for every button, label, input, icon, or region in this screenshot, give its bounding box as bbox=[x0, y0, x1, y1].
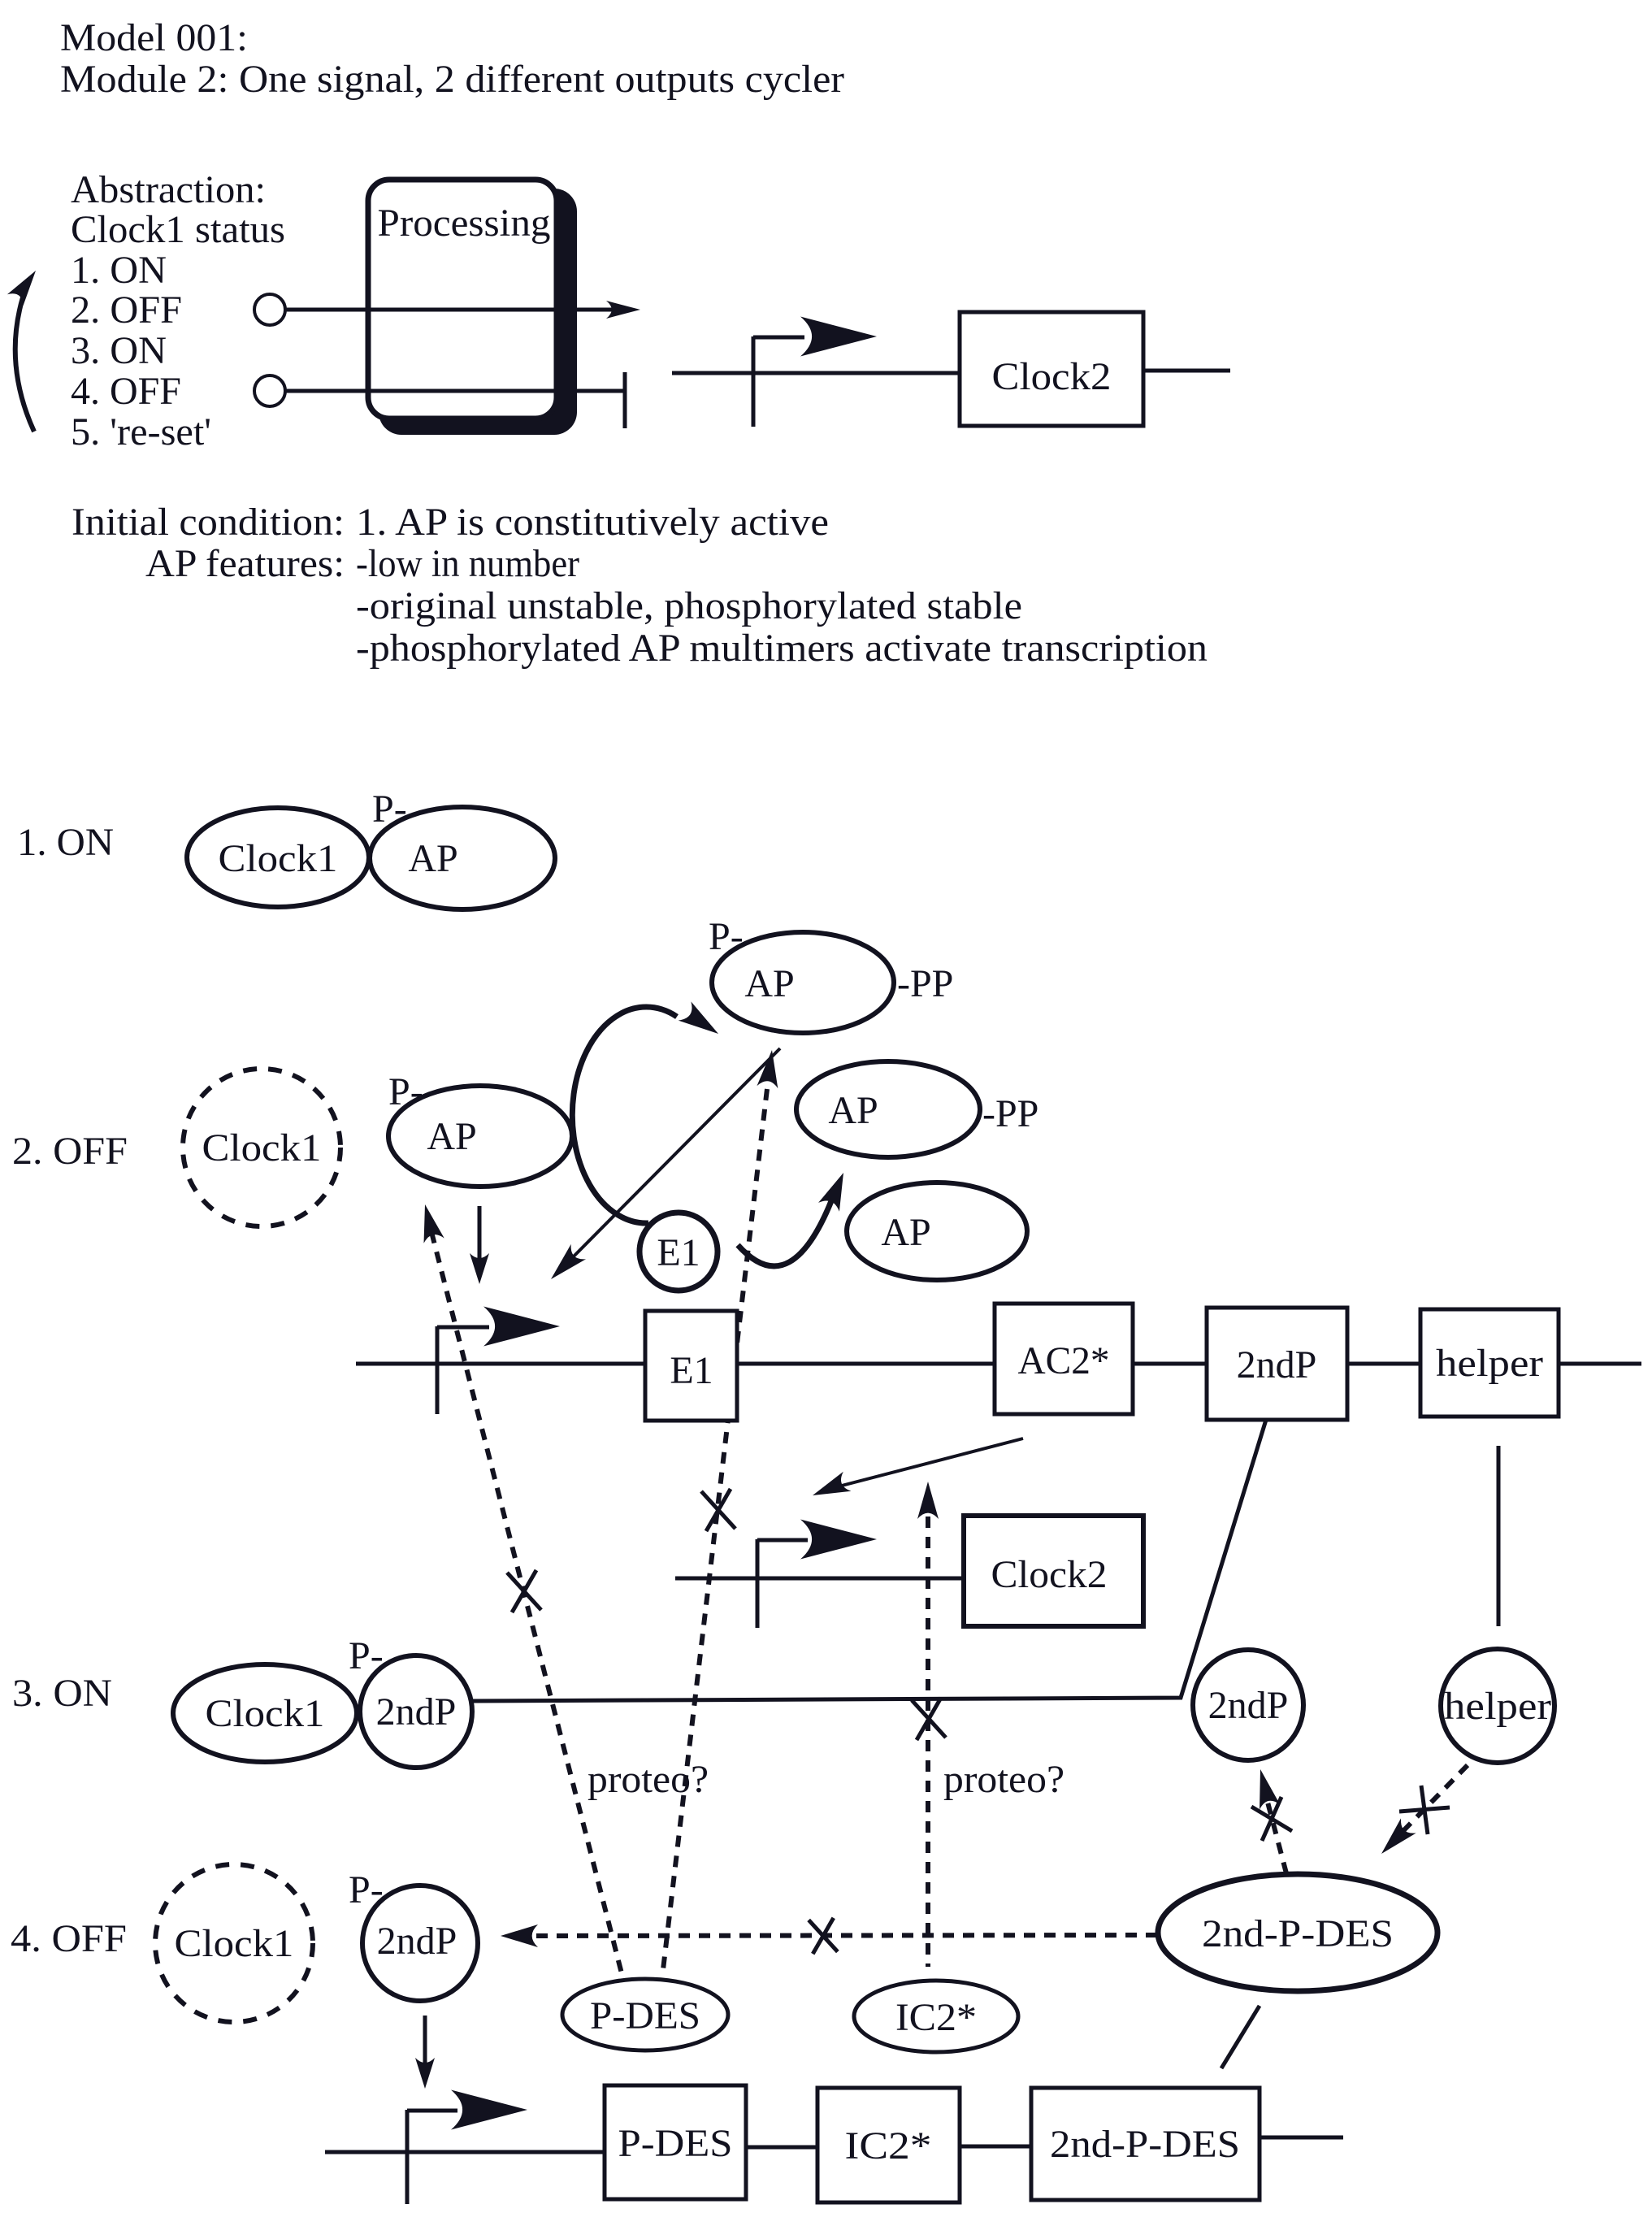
AP-PP ellipse (mid) bbox=[796, 1061, 980, 1157]
svg-text:Clock1 status: Clock1 status bbox=[71, 208, 285, 251]
svg-text:Clock1: Clock1 bbox=[202, 1126, 322, 1169]
E1 circle bbox=[640, 1213, 718, 1291]
Clock1 dashed circle (row4) bbox=[155, 1864, 313, 2022]
svg-text:AP features:: AP features: bbox=[145, 542, 345, 585]
P-AP-PP ellipse (top) bbox=[712, 932, 894, 1033]
svg-text:P-: P- bbox=[372, 788, 407, 831]
input circle 1 bbox=[254, 294, 285, 325]
IC2* gene box bbox=[817, 2088, 960, 2202]
svg-text:AP: AP bbox=[744, 962, 794, 1005]
svg-text:5. 're-set': 5. 're-set' bbox=[71, 410, 211, 453]
dashed line C head bbox=[917, 1482, 939, 1519]
svg-text:-PP: -PP bbox=[982, 1092, 1038, 1135]
svg-text:P-DES: P-DES bbox=[618, 2122, 733, 2165]
X mark on line B bbox=[701, 1491, 735, 1529]
signal line 1 bbox=[285, 308, 626, 312]
X mark on line A bbox=[507, 1573, 541, 1610]
long line (2ndP to gene) bbox=[471, 1420, 1266, 1701]
svg-text:Clock1: Clock1 bbox=[219, 837, 338, 880]
svg-text:IC2*: IC2* bbox=[845, 2124, 932, 2167]
svg-text:IC2*: IC2* bbox=[895, 1996, 977, 2039]
svg-text:Module 2: One signal, 2 differ: Module 2: One signal, 2 different output… bbox=[60, 58, 844, 101]
gene line (E1 operon) bbox=[356, 1362, 1641, 1366]
P-DES gene box bbox=[605, 2085, 746, 2199]
svg-text:AP: AP bbox=[427, 1115, 476, 1158]
2ndP circle (row4) bbox=[362, 1885, 478, 2001]
svg-text:2. OFF: 2. OFF bbox=[71, 289, 182, 332]
diagonal arrow (P-AP to promoter) bbox=[561, 1048, 780, 1269]
dashed up arrow head (line A top) bbox=[424, 1204, 444, 1243]
svg-text:2ndP: 2ndP bbox=[376, 1690, 457, 1734]
gene line (Clock2) bbox=[675, 1577, 962, 1581]
svg-text:2. OFF: 2. OFF bbox=[12, 1130, 128, 1173]
processing box shadow bbox=[379, 189, 577, 435]
svg-text:Processing: Processing bbox=[378, 202, 551, 245]
repression arrow (to Clock2 promoter) bbox=[839, 1438, 1023, 1486]
Clock1 ellipse (row1) bbox=[187, 808, 369, 907]
dashed up arrow head (line B top) bbox=[757, 1050, 778, 1088]
blocked dashed arrow (helper to 2nd-P-DES) bbox=[1391, 1765, 1468, 1843]
P-DES ellipse bbox=[562, 1979, 728, 2050]
promoter arrow (E1 operon) bbox=[436, 1326, 440, 1414]
svg-text:Clock2: Clock2 bbox=[991, 1553, 1108, 1596]
svg-text:AP: AP bbox=[408, 837, 457, 880]
svg-text:AC2*: AC2* bbox=[1018, 1339, 1110, 1382]
blocked dashed arrow (2nd-P-DES to 2ndP circle) bbox=[1266, 1796, 1286, 1873]
cycle arc arrow bbox=[15, 297, 34, 432]
svg-text:P-: P- bbox=[349, 1634, 384, 1677]
gene line (abstraction) bbox=[672, 371, 960, 375]
svg-text:AP: AP bbox=[828, 1089, 878, 1132]
helper line (from gene box) bbox=[1497, 1446, 1501, 1626]
2ndP circle (right) bbox=[1193, 1650, 1303, 1760]
2nd-P-DES ellipse bbox=[1158, 1874, 1437, 1991]
svg-text:-low in number: -low in number bbox=[356, 542, 579, 585]
small down arrow (row2) bbox=[478, 1206, 482, 1273]
AP ellipse (low) bbox=[847, 1182, 1027, 1280]
signal line 2 (inhibit) bbox=[285, 389, 625, 393]
processing box bbox=[368, 180, 557, 419]
gene stub right bbox=[1256, 2136, 1343, 2140]
svg-text:Clock1: Clock1 bbox=[206, 1692, 325, 1735]
2nd-P-DES gene box bbox=[1031, 2088, 1260, 2200]
svg-text:-original unstable, phosphoryl: -original unstable, phosphorylated stabl… bbox=[356, 584, 1022, 627]
svg-text:helper: helper bbox=[1436, 1342, 1543, 1385]
svg-text:helper: helper bbox=[1444, 1685, 1551, 1728]
promoter arrow (abstraction) bbox=[752, 336, 756, 427]
cross mark on helper arrow bbox=[1399, 1807, 1450, 1812]
svg-text:proteo?: proteo? bbox=[588, 1758, 709, 1801]
E1 gene box bbox=[645, 1311, 737, 1421]
svg-text:4. OFF: 4. OFF bbox=[11, 1917, 127, 1960]
svg-text:P-DES: P-DES bbox=[590, 1994, 700, 2037]
AC2* gene box bbox=[995, 1304, 1133, 1414]
svg-text:Model 001:: Model 001: bbox=[60, 16, 248, 59]
svg-text:2nd-P-DES: 2nd-P-DES bbox=[1050, 2123, 1240, 2166]
svg-text:2ndP: 2ndP bbox=[1208, 1684, 1289, 1727]
svg-text:proteo?: proteo? bbox=[943, 1758, 1064, 1801]
svg-text:AP: AP bbox=[881, 1211, 930, 1254]
dashed line A (proteo left) bbox=[431, 1232, 622, 1977]
2ndP circle (row3) bbox=[360, 1655, 472, 1768]
svg-text:2ndP: 2ndP bbox=[1237, 1343, 1317, 1386]
dashed line C (proteo right-2) bbox=[926, 1517, 930, 1967]
svg-text:Clock1: Clock1 bbox=[175, 1922, 294, 1965]
svg-text:2nd-P-DES: 2nd-P-DES bbox=[1202, 1912, 1394, 1955]
Clock2 gene box bbox=[964, 1516, 1143, 1626]
promoter arrow (Clock2 gene) bbox=[756, 1539, 760, 1628]
small arc arrow (AP to AP-PP) bbox=[738, 1191, 835, 1266]
dashed arrow (2nd-P-DES to 2ndP row4) bbox=[536, 1935, 1158, 1936]
2ndP gene box bbox=[1207, 1308, 1347, 1420]
svg-text:P-: P- bbox=[349, 1868, 384, 1911]
gene connector 2 bbox=[956, 2145, 1034, 2149]
Clock2 box (abstraction) bbox=[960, 312, 1143, 426]
X mark on dashed horizontal bbox=[809, 1920, 838, 1951]
line right of Clock2 bbox=[1143, 369, 1230, 373]
AP ellipse (row1) bbox=[370, 807, 555, 909]
svg-text:3. ON: 3. ON bbox=[12, 1672, 112, 1715]
svg-text:P-: P- bbox=[709, 915, 744, 958]
svg-text:Abstraction:: Abstraction: bbox=[71, 168, 266, 211]
X mark on blocked arrow bbox=[1251, 1807, 1292, 1831]
svg-text:2ndP: 2ndP bbox=[377, 1920, 457, 1963]
IC2* ellipse bbox=[854, 1981, 1018, 2052]
input circle 2 bbox=[254, 375, 285, 406]
svg-text:-PP: -PP bbox=[897, 962, 953, 1005]
Clock1 ellipse (row3) bbox=[173, 1664, 357, 1762]
big cycle arc (E1 catalysis) bbox=[572, 1007, 677, 1223]
connector 2nd-P-DES ellipse to box bbox=[1221, 2006, 1260, 2068]
svg-text:1. AP is constitutively active: 1. AP is constitutively active bbox=[356, 501, 829, 544]
svg-text:P-: P- bbox=[388, 1070, 423, 1113]
Clock1 dashed circle (row2) bbox=[183, 1069, 340, 1226]
gene line (bottom left) bbox=[325, 2150, 608, 2154]
svg-text:E1: E1 bbox=[670, 1349, 713, 1392]
P-AP ellipse (row2) bbox=[388, 1086, 572, 1187]
svg-text:1. ON: 1. ON bbox=[71, 249, 167, 292]
svg-text:-phosphorylated AP multimers a: -phosphorylated AP multimers activate tr… bbox=[356, 627, 1208, 670]
promoter arrow (bottom gene) bbox=[405, 2110, 410, 2204]
svg-text:3. ON: 3. ON bbox=[71, 329, 167, 372]
svg-text:E1: E1 bbox=[657, 1231, 700, 1274]
gene connector 1 bbox=[743, 2146, 821, 2150]
svg-text:1. ON: 1. ON bbox=[17, 821, 114, 864]
X mark on line C crossing bbox=[912, 1700, 946, 1738]
small down arrow (row4) bbox=[423, 2016, 427, 2077]
helper circle bbox=[1441, 1649, 1554, 1763]
helper gene box bbox=[1420, 1309, 1559, 1417]
svg-text:Clock2: Clock2 bbox=[992, 355, 1112, 398]
dashed line B (proteo right) bbox=[662, 1089, 767, 1977]
svg-text:Initial condition:: Initial condition: bbox=[72, 501, 345, 544]
svg-text:4. OFF: 4. OFF bbox=[71, 370, 181, 413]
